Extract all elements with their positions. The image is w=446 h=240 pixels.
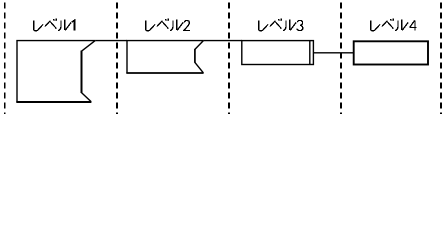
level-2 block bottom edge (bold) — [126, 72, 203, 74]
level-3 block (bar rectangle) — [242, 41, 314, 65]
label "レベル4" — [371, 19, 417, 31]
dashed boundary line 1 (far left) — [4, 2, 6, 114]
dashed boundary line 5 (far right) — [440, 2, 442, 114]
level-4 block (bold rectangle) — [354, 41, 428, 64]
level-1 block (notched rectangle) — [17, 41, 95, 102]
wire: level-3 to level-4 — [313, 52, 353, 54]
level-1 block right edge (bold) — [81, 51, 83, 93]
dashed boundary line 3 (between level 2 and 3) — [228, 2, 230, 114]
wire: level-1 to level-2 — [95, 40, 127, 42]
dashed boundary line 2 (between level 1 and 2) — [116, 2, 118, 114]
level-1 block bottom edge (bold) — [16, 101, 91, 103]
label "レベル3" — [259, 19, 303, 31]
wire: level-2 to level-3 — [203, 40, 242, 42]
label "レベル2" — [146, 19, 190, 31]
label "レベル1" — [34, 19, 75, 31]
dashed boundary line 4 (between level 3 and 4) — [340, 2, 342, 114]
level-2 block (notched rectangle) — [127, 41, 203, 73]
level-2 block right edge (bold) — [194, 49, 196, 63]
level-3 block inner band line — [309, 41, 311, 65]
